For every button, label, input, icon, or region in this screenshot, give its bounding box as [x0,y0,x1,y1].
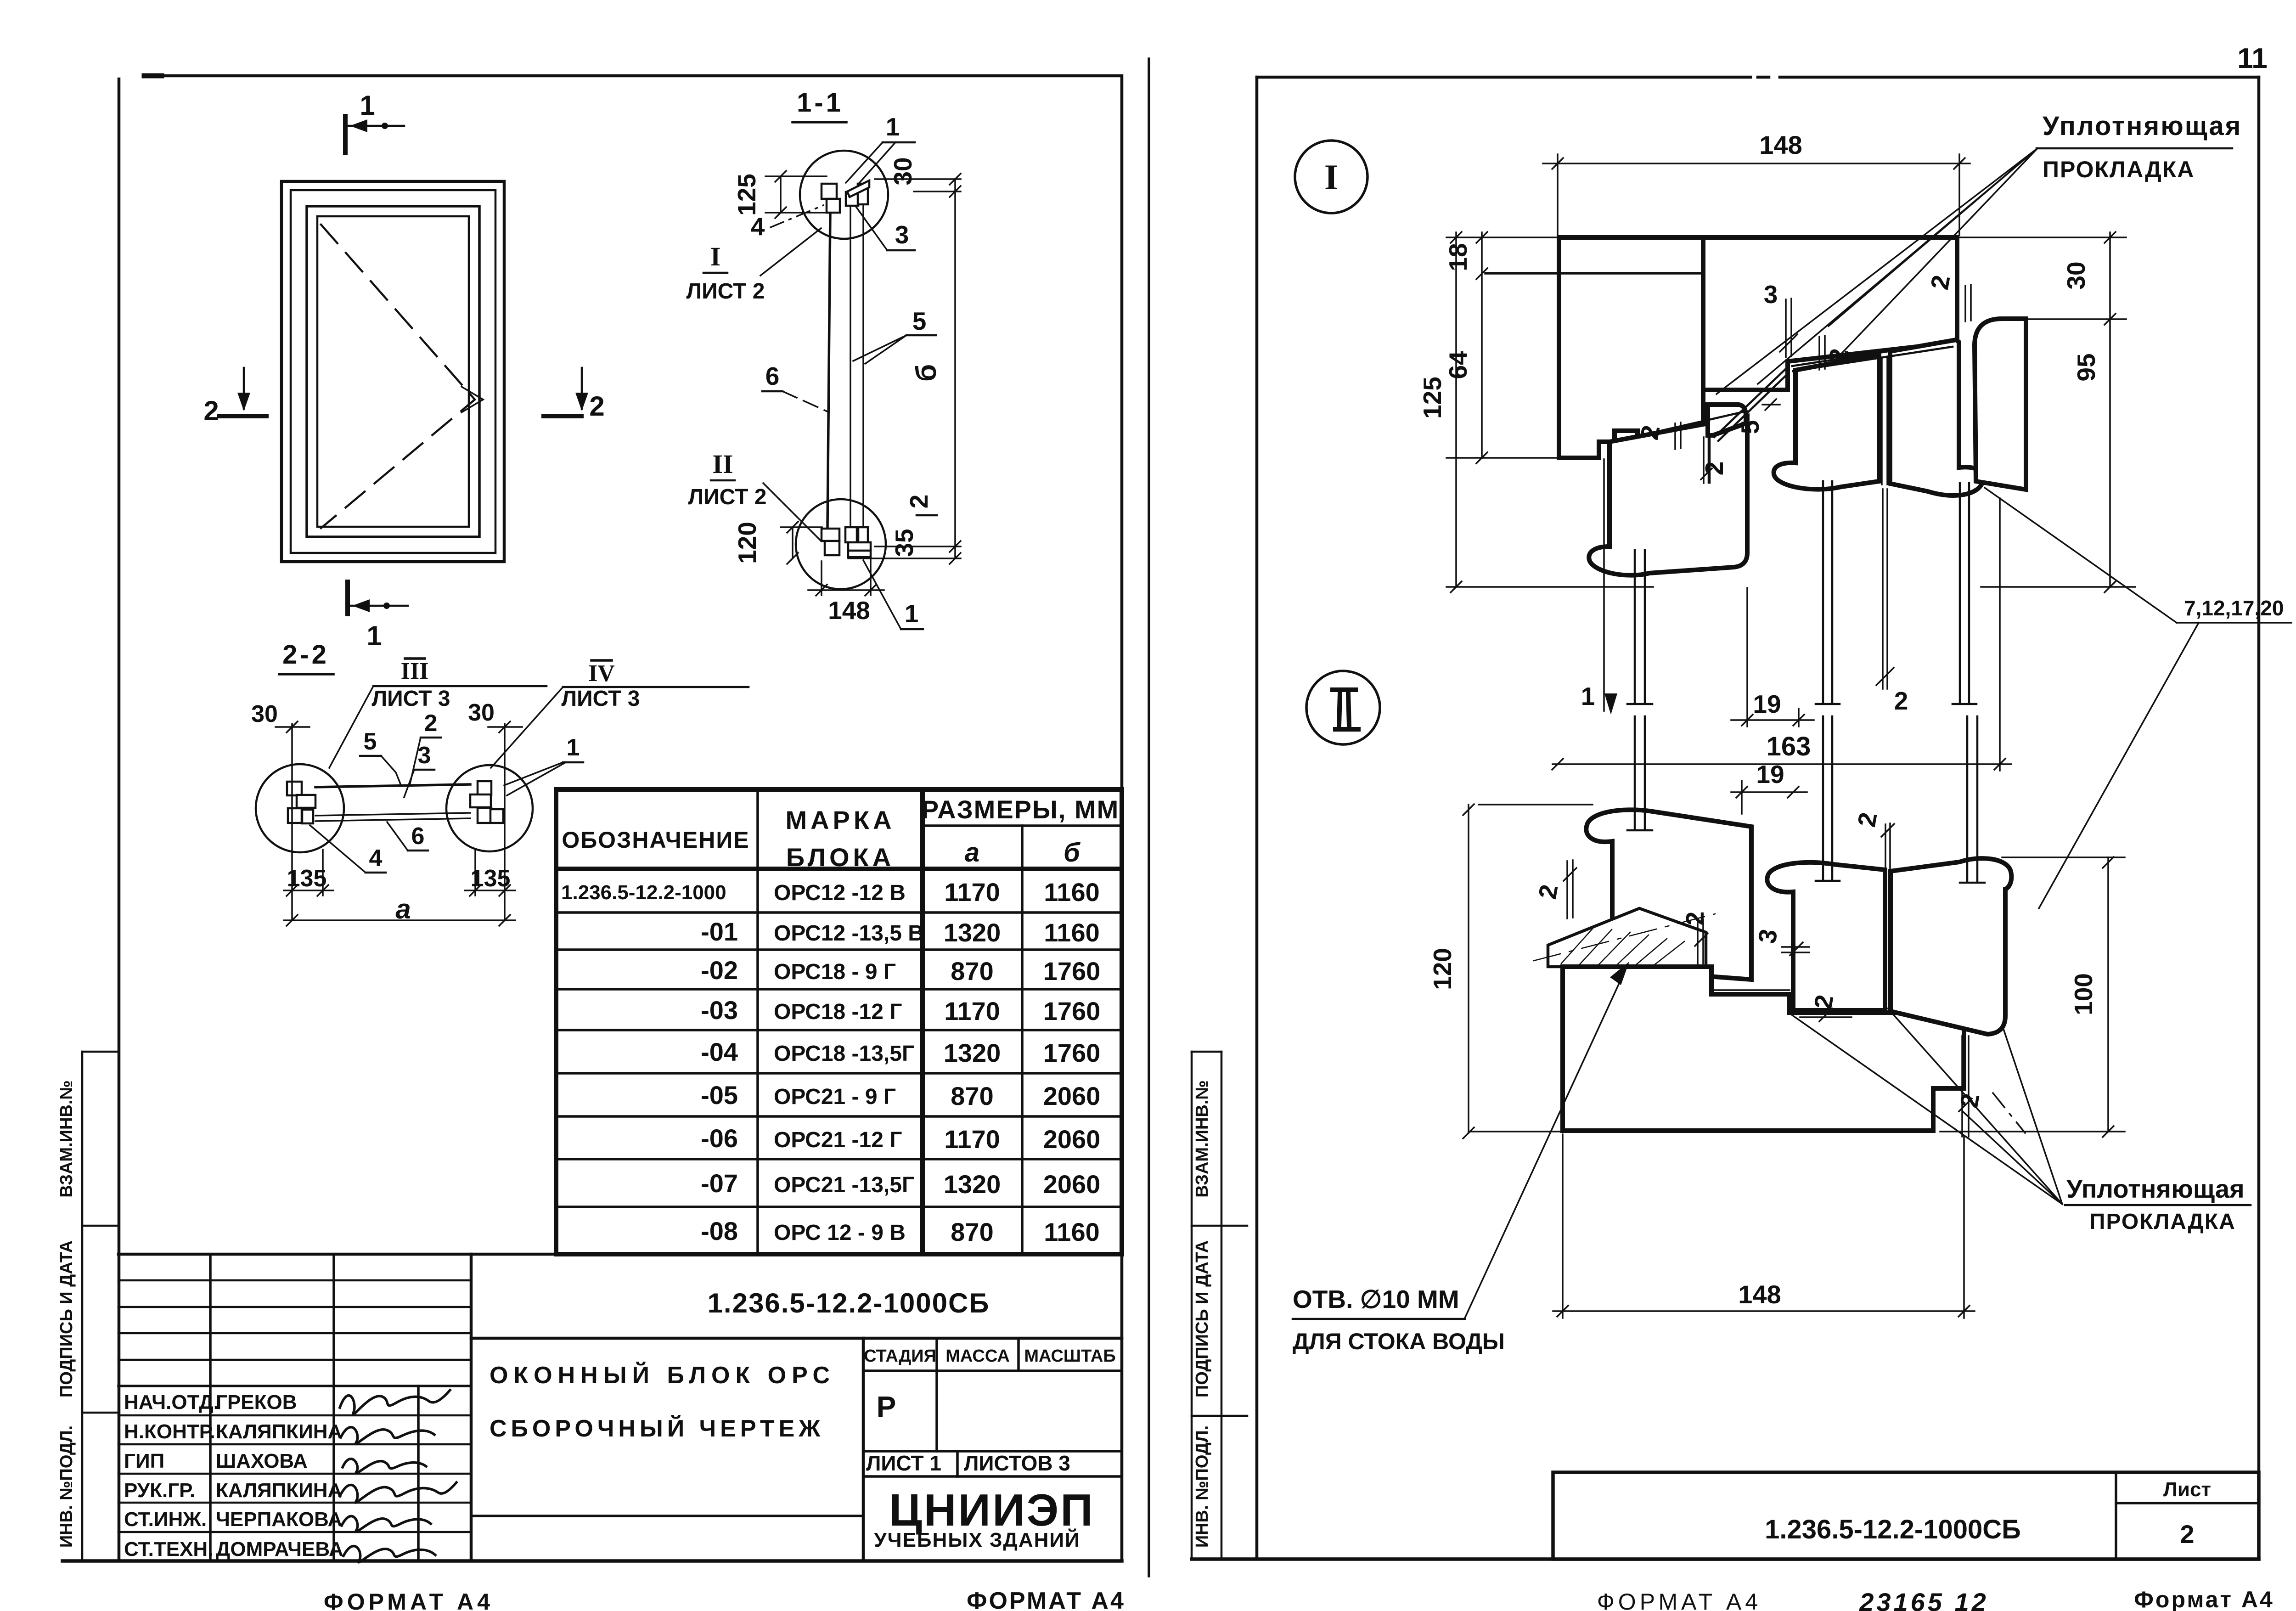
svg-text:КАЛЯПКИНА: КАЛЯПКИНА [216,1479,342,1502]
svg-text:1160: 1160 [1044,1217,1100,1246]
svg-text:2060: 2060 [1043,1125,1101,1154]
svg-text:МАССА: МАССА [945,1346,1010,1366]
svg-text:2060: 2060 [1043,1170,1101,1199]
svg-text:1760: 1760 [1043,1038,1101,1067]
svg-text:19: 19 [1753,690,1781,718]
svg-text:125: 125 [732,174,761,216]
svg-text:ДОМРАЧЕВА: ДОМРАЧЕВА [216,1538,343,1560]
svg-text:ОТВ. ∅10 ММ: ОТВ. ∅10 ММ [1293,1285,1459,1313]
svg-text:6: 6 [765,362,780,390]
svg-text:1170: 1170 [944,997,1000,1025]
svg-text:a: a [395,894,411,924]
svg-text:ОРС21 -12 Г: ОРС21 -12 Г [774,1128,902,1152]
svg-text:2-2: 2-2 [282,640,329,670]
svg-text:30: 30 [889,157,917,185]
svg-text:1160: 1160 [1044,878,1100,907]
svg-text:11: 11 [2237,43,2268,74]
svg-text:148: 148 [828,596,870,625]
svg-text:2: 2 [203,395,219,426]
svg-text:5: 5 [912,307,927,335]
svg-text:ЛИСТ 1: ЛИСТ 1 [866,1451,941,1475]
svg-text:19: 19 [1756,760,1784,789]
svg-text:СТ.ИНЖ.: СТ.ИНЖ. [124,1508,207,1531]
svg-text:-06: -06 [701,1124,738,1153]
svg-text:64: 64 [1444,351,1472,379]
svg-text:2: 2 [589,391,604,422]
svg-text:1: 1 [1581,682,1595,710]
svg-text:I: I [1324,157,1338,197]
svg-text:125: 125 [1418,377,1446,419]
svg-text:ЛИСТ 3: ЛИСТ 3 [562,687,640,711]
svg-text:1320: 1320 [944,1038,1001,1067]
svg-text:870: 870 [951,1217,993,1246]
svg-text:2: 2 [1852,810,1882,829]
svg-text:ОРС18 - 9 Г: ОРС18 - 9 Г [774,960,896,984]
svg-text:1: 1 [360,90,375,121]
svg-text:1.236.5-12.2-1000СБ: 1.236.5-12.2-1000СБ [1765,1515,2021,1544]
svg-text:3: 3 [1764,280,1778,309]
svg-text:ГИП: ГИП [124,1450,164,1472]
svg-text:870: 870 [951,1082,993,1110]
svg-text:IV: IV [588,660,615,687]
svg-text:Р: Р [877,1390,896,1423]
svg-text:3: 3 [418,742,431,769]
svg-text:Н.КОНТР.: Н.КОНТР. [124,1420,215,1443]
svg-text:5: 5 [1736,420,1764,434]
svg-text:7,12,17,20: 7,12,17,20 [2184,596,2284,620]
svg-text:-02: -02 [701,956,738,985]
svg-text:ФОРМАТ А4: ФОРМАТ А4 [967,1588,1125,1611]
svg-text:18: 18 [1444,243,1472,271]
svg-text:1: 1 [366,620,382,651]
svg-text:1760: 1760 [1043,957,1101,986]
svg-text:1-1: 1-1 [797,88,844,118]
svg-text:-04: -04 [701,1037,738,1066]
svg-text:1320: 1320 [944,1170,1001,1199]
svg-text:4: 4 [751,212,765,241]
svg-text:ОРС18 -12 Г: ОРС18 -12 Г [774,1000,902,1024]
svg-text:2: 2 [1894,687,1908,715]
svg-text:БЛОКА: БЛОКА [786,843,895,872]
svg-text:ФОРМАТ А4: ФОРМАТ А4 [1597,1589,1761,1611]
svg-text:30: 30 [2062,261,2090,289]
svg-text:РАЗМЕРЫ, ММ: РАЗМЕРЫ, ММ [922,795,1120,824]
svg-text:ФОРМАТ А4: ФОРМАТ А4 [324,1589,494,1611]
svg-text:1.236.5-12.2-1000: 1.236.5-12.2-1000 [561,881,726,904]
svg-text:5: 5 [364,728,377,755]
svg-text:135: 135 [287,865,327,892]
svg-text:3: 3 [895,220,909,249]
svg-text:1: 1 [905,599,919,628]
svg-text:ОКОННЫЙ БЛОК ОРС: ОКОННЫЙ БЛОК ОРС [490,1362,835,1389]
svg-text:2: 2 [2180,1520,2194,1549]
svg-text:ЛИСТ 2: ЛИСТ 2 [688,485,767,509]
svg-text:СБОРОЧНЫЙ ЧЕРТЕЖ: СБОРОЧНЫЙ ЧЕРТЕЖ [490,1415,824,1442]
svg-text:148: 148 [1759,130,1802,159]
svg-text:ОБОЗНАЧЕНИЕ: ОБОЗНАЧЕНИЕ [562,827,749,853]
svg-text:ВЗАМ.ИНВ.№: ВЗАМ.ИНВ.№ [1193,1080,1212,1198]
svg-text:УЧЕБНЫХ ЗДАНИЙ: УЧЕБНЫХ ЗДАНИЙ [874,1528,1080,1551]
svg-text:-07: -07 [701,1169,738,1198]
svg-text:ОРС12 -12 В: ОРС12 -12 В [774,881,906,905]
svg-text:Уплотняющая: Уплотняющая [2043,111,2242,141]
svg-text:30: 30 [468,699,495,726]
svg-text:ПОДПИСЬ И ДАТА: ПОДПИСЬ И ДАТА [57,1240,76,1397]
svg-text:1: 1 [886,113,900,141]
svg-text:б: б [911,364,942,382]
svg-text:ИНВ. №ПОДЛ.: ИНВ. №ПОДЛ. [1193,1425,1212,1548]
svg-text:2: 2 [1533,882,1563,901]
svg-text:НАЧ.ОТД.: НАЧ.ОТД. [124,1391,219,1414]
svg-text:35: 35 [890,529,918,557]
svg-text:2: 2 [1700,462,1728,476]
svg-text:30: 30 [251,701,278,727]
svg-text:ОРС21 - 9 Г: ОРС21 - 9 Г [774,1085,896,1109]
svg-text:РУК.ГР.: РУК.ГР. [124,1479,195,1502]
svg-text:-01: -01 [701,917,738,946]
svg-text:СТАДИЯ: СТАДИЯ [864,1346,936,1366]
svg-text:1760: 1760 [1043,997,1101,1025]
svg-text:I: I [710,242,721,271]
svg-text:1170: 1170 [944,1125,1000,1154]
svg-text:ОРС18 -13,5Г: ОРС18 -13,5Г [774,1042,914,1066]
svg-text:ЛИСТОВ 3: ЛИСТОВ 3 [964,1451,1070,1475]
svg-text:-03: -03 [701,996,738,1025]
svg-text:2: 2 [424,710,438,737]
svg-text:III: III [401,658,429,684]
svg-text:1170: 1170 [944,878,1000,907]
svg-text:ОРС12 -13,5 В: ОРС12 -13,5 В [774,921,924,946]
svg-text:ШАХОВА: ШАХОВА [216,1450,308,1472]
svg-text:II: II [712,449,733,479]
svg-text:-08: -08 [701,1217,738,1245]
svg-text:ЛИСТ 3: ЛИСТ 3 [372,687,450,711]
svg-text:1320: 1320 [944,918,1001,947]
svg-text:ПОДПИСЬ И ДАТА: ПОДПИСЬ И ДАТА [1193,1240,1212,1397]
svg-text:ЧЕРПАКОВА: ЧЕРПАКОВА [216,1508,342,1531]
svg-text:Лист: Лист [2163,1478,2211,1501]
svg-text:4: 4 [369,845,383,872]
svg-text:95: 95 [2072,353,2100,381]
svg-text:ЦНИИЭП: ЦНИИЭП [889,1485,1094,1535]
svg-text:ПРОКЛАДКА: ПРОКЛАДКА [2089,1210,2236,1234]
svg-text:120: 120 [733,522,761,564]
svg-text:СТ.ТЕХН.: СТ.ТЕХН. [124,1538,213,1560]
svg-text:КАЛЯПКИНА: КАЛЯПКИНА [216,1420,342,1443]
svg-text:-05: -05 [701,1081,738,1110]
svg-text:1160: 1160 [1044,918,1100,947]
svg-text:ОРС21 -13,5Г: ОРС21 -13,5Г [774,1173,914,1197]
svg-text:ВЗАМ.ИНВ.№: ВЗАМ.ИНВ.№ [57,1080,76,1198]
svg-text:ОРС 12 - 9 В: ОРС 12 - 9 В [774,1221,906,1245]
svg-text:1.236.5-12.2-1000СБ: 1.236.5-12.2-1000СБ [708,1288,990,1318]
svg-text:6: 6 [411,823,425,850]
svg-text:3: 3 [1752,927,1783,946]
svg-text:ГРЕКОВ: ГРЕКОВ [216,1391,297,1414]
svg-text:870: 870 [951,957,993,986]
svg-text:a: a [965,838,979,867]
svg-text:2: 2 [1681,912,1709,926]
svg-text:100: 100 [2069,973,2098,1015]
svg-text:ДЛЯ СТОКА ВОДЫ: ДЛЯ СТОКА ВОДЫ [1293,1329,1505,1354]
svg-text:МАСШТАБ: МАСШТАБ [1024,1346,1115,1366]
svg-text:2060: 2060 [1043,1082,1101,1110]
svg-text:1: 1 [567,734,580,761]
svg-text:ПРОКЛАДКА: ПРОКЛАДКА [2043,157,2195,182]
svg-text:2: 2 [905,495,933,509]
svg-text:23165 12: 23165 12 [1859,1588,1989,1611]
svg-text:МАРКА: МАРКА [785,805,895,834]
svg-text:163: 163 [1767,732,1811,761]
svg-text:Формат А4: Формат А4 [2134,1587,2274,1611]
svg-text:120: 120 [1428,948,1457,990]
svg-text:135: 135 [471,865,511,892]
svg-text:148: 148 [1738,1280,1781,1309]
svg-text:б: б [1064,838,1081,867]
svg-text:ИНВ. №ПОДЛ.: ИНВ. №ПОДЛ. [57,1425,76,1548]
svg-text:Уплотняющая: Уплотняющая [2066,1174,2245,1203]
svg-text:ЛИСТ 2: ЛИСТ 2 [687,279,765,304]
